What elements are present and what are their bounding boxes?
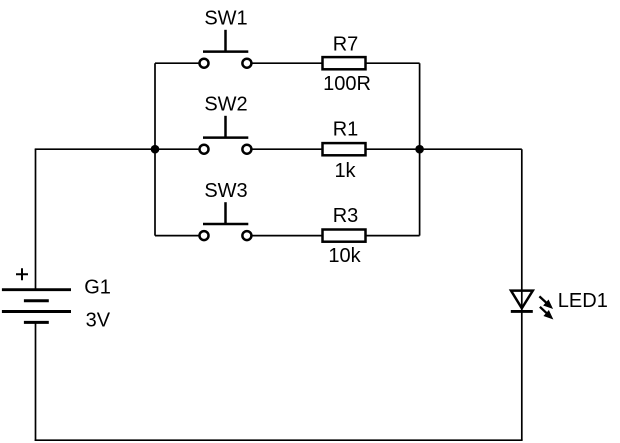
- resistor R7 (100R): [323, 33, 371, 95]
- node: right junction: [415, 145, 424, 154]
- resistor R1 (1k): [323, 118, 366, 182]
- resistor R3 (10k): [323, 205, 366, 267]
- wire: R3 to right branch bus: [366, 235, 420, 237]
- wire: SW1 to R7: [252, 62, 322, 64]
- wire: LED rail vertical down to bottom: [521, 149, 523, 440]
- svg-text:10k: 10k: [328, 245, 361, 267]
- wire: battery negative down to bottom rail: [35, 322, 37, 441]
- svg-text:SW1: SW1: [204, 7, 247, 29]
- node: left junction: [151, 145, 160, 154]
- svg-text:SW2: SW2: [204, 93, 247, 115]
- wire: left branch vertical bus: [154, 63, 156, 235]
- svg-text:100R: 100R: [323, 73, 371, 95]
- switch SW2: [200, 93, 252, 153]
- wire: top row left segment to SW1: [155, 62, 199, 64]
- switch SW1: [200, 7, 252, 67]
- wire: bottom rail: [35, 439, 523, 441]
- wire: bottom row left segment to SW3: [155, 235, 199, 237]
- svg-text:SW3: SW3: [204, 180, 247, 202]
- wire: SW2 to R1: [252, 148, 322, 150]
- svg-text:1k: 1k: [334, 160, 356, 182]
- LED LED1: [511, 290, 608, 318]
- svg-text:G1: G1: [84, 276, 111, 298]
- svg-text:LED1: LED1: [558, 290, 608, 312]
- switch SW3: [200, 180, 252, 240]
- battery G1 (3V): [2, 268, 111, 331]
- wire: middle row left segment to SW2: [35, 148, 199, 150]
- svg-text:R1: R1: [333, 118, 359, 140]
- wire: left rail vertical from battery + to middle row: [35, 149, 37, 290]
- wire: right branch vertical bus: [419, 63, 421, 235]
- wire: R7 to right branch bus: [366, 62, 420, 64]
- svg-text:3V: 3V: [86, 309, 111, 331]
- wire: SW3 to R3: [252, 235, 322, 237]
- svg-text:R7: R7: [333, 33, 359, 55]
- svg-text:R3: R3: [333, 205, 359, 227]
- wire: R1 past junction to LED rail: [366, 148, 522, 150]
